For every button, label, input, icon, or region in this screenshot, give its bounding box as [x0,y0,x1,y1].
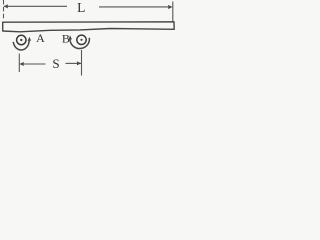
dimension S line left segment [20,63,46,65]
dimension L line left segment [4,5,67,7]
roller A rotation arrow [13,39,29,50]
beam [3,22,175,32]
svg-text:L: L [77,0,85,15]
roller B arrowhead [68,35,72,40]
dimension L left arrowhead [4,4,9,8]
roller B rotation arrow [70,37,89,49]
roller B circle [77,35,86,44]
svg-text:B: B [62,32,70,46]
dimension S right extension line [81,50,83,76]
dimension S line right segment [66,62,82,64]
dimension S right arrowhead [77,61,82,65]
roller A hub dot [20,39,22,41]
dimension L line right segment [99,6,172,8]
dimension L right extension line [172,2,174,23]
dimension S left arrowhead [19,62,24,66]
roller A circle [17,35,26,44]
roller B hub dot [80,39,82,41]
roller A arrowhead [28,37,32,42]
svg-text:S: S [52,56,59,71]
dimension L right arrowhead [168,5,173,9]
dimension L left extension line (dashed) [3,0,5,21]
dimension S left extension line [18,54,20,73]
svg-text:A: A [36,31,45,45]
